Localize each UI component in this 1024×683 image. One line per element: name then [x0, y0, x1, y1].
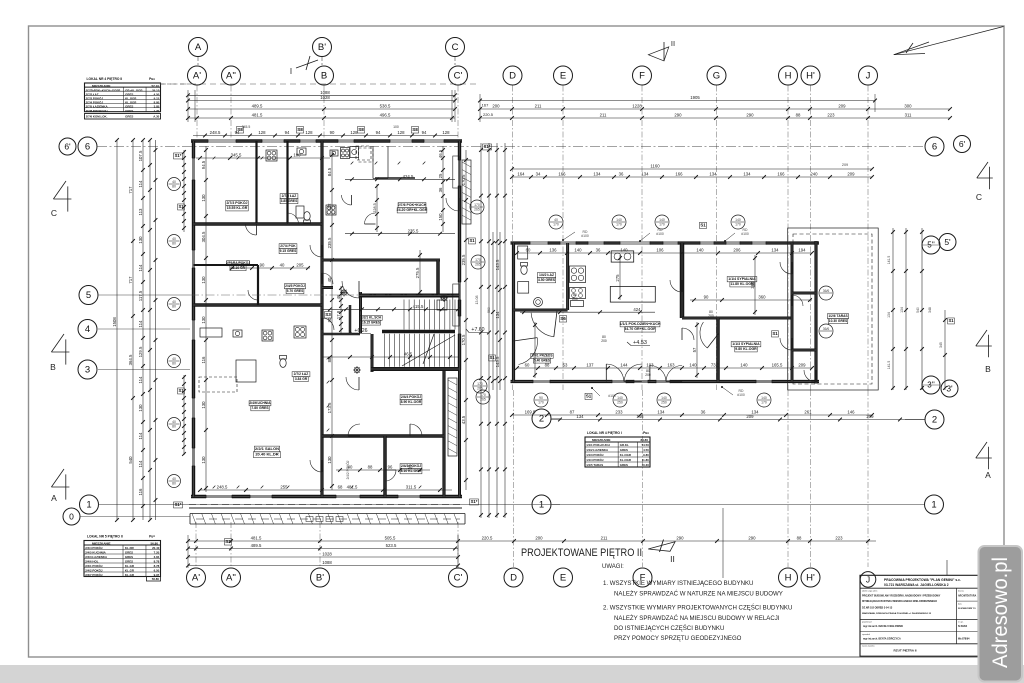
svg-text:34: 34	[536, 172, 541, 177]
svg-text:523.5: 523.5	[386, 543, 397, 548]
svg-text:311: 311	[905, 113, 912, 118]
svg-text:5: 5	[86, 290, 91, 301]
svg-text:H': H'	[806, 573, 815, 584]
svg-text:7.80 GRES: 7.80 GRES	[251, 406, 269, 410]
svg-text:248.5: 248.5	[217, 485, 228, 490]
svg-text:LOKAL NR 4 PIĘTRO I: LOKAL NR 4 PIĘTRO I	[587, 431, 622, 435]
svg-text:40: 40	[172, 357, 176, 361]
svg-text:1/1/3 SYPIALNIA: 1/1/3 SYPIALNIA	[732, 342, 760, 346]
svg-text:60: 60	[525, 363, 530, 368]
svg-text:branża: branża	[958, 590, 965, 593]
svg-text:90: 90	[330, 130, 335, 135]
svg-text:170: 170	[616, 223, 622, 227]
svg-text:114: 114	[138, 460, 143, 467]
svg-text:173.5: 173.5	[327, 402, 332, 413]
svg-text:S8: S8	[412, 127, 418, 132]
svg-text:4.50: 4.50	[643, 448, 649, 452]
svg-text:88: 88	[368, 465, 373, 470]
svg-text:40: 40	[172, 237, 176, 241]
svg-text:540: 540	[128, 456, 133, 464]
svg-text:1/4/2 ŁAZ: 1/4/2 ŁAZ	[539, 273, 554, 277]
svg-text:206: 206	[733, 248, 741, 253]
svg-text:130: 130	[201, 456, 206, 464]
svg-text:134: 134	[657, 410, 665, 415]
svg-text:5.70 GRES: 5.70 GRES	[287, 289, 304, 293]
svg-text:169.5: 169.5	[525, 410, 536, 415]
svg-text:D: D	[509, 71, 516, 82]
svg-text:170.5: 170.5	[461, 174, 466, 185]
svg-text:1/1/5 TARAS: 1/1/5 TARAS	[586, 463, 603, 467]
svg-text:130: 130	[201, 276, 206, 284]
svg-text:163: 163	[667, 363, 675, 368]
svg-text:170: 170	[474, 203, 480, 207]
svg-text:H: H	[785, 71, 792, 82]
svg-text:DO ISTNIEJĄCYCH CZĘŚCI BUDY: DO ISTNIEJĄCYCH CZĘŚCI BUDYNKU	[614, 624, 724, 632]
svg-text:255: 255	[280, 485, 288, 490]
svg-text:D: D	[510, 573, 517, 584]
svg-text:36: 36	[701, 410, 706, 415]
svg-text:1028: 1028	[320, 95, 330, 100]
svg-text:2/4/1 POKÓJ: 2/4/1 POKÓJ	[85, 563, 103, 568]
svg-text:106: 106	[656, 248, 664, 253]
svg-text:15.55 KL.GR: 15.55 KL.GR	[227, 206, 248, 210]
svg-text:90: 90	[704, 295, 709, 300]
svg-text:134: 134	[495, 311, 500, 319]
svg-text:100: 100	[293, 153, 301, 158]
svg-text:S1: S1	[469, 238, 475, 243]
svg-text:265: 265	[475, 263, 481, 267]
svg-text:36: 36	[619, 172, 624, 177]
svg-text:2/7/2 ŁAZ: 2/7/2 ŁAZ	[294, 372, 309, 376]
svg-text:A': A'	[193, 71, 201, 82]
svg-text:84.5: 84.5	[327, 167, 332, 176]
svg-text:165.5: 165.5	[772, 363, 783, 368]
svg-text:3.84 GR: 3.84 GR	[295, 377, 308, 381]
svg-text:S1: S1	[489, 355, 495, 360]
svg-text:40: 40	[172, 420, 176, 424]
svg-text:345.5: 345.5	[242, 125, 251, 129]
svg-text:209: 209	[798, 363, 806, 368]
svg-text:223: 223	[835, 536, 843, 541]
svg-text:128: 128	[258, 130, 266, 135]
svg-text:560: 560	[487, 307, 491, 313]
svg-text:03-721 WARSZAWA ul. JAGIELLOŃS: 03-721 WARSZAWA ul. JAGIELLOŃSKA 2	[884, 582, 949, 587]
svg-text:134: 134	[641, 172, 649, 177]
svg-text:220.5: 220.5	[482, 536, 493, 541]
svg-text:NALEŻY SPRAWDZAĆ W NATURZE: NALEŻY SPRAWDZAĆ W NATURZE NA MIEJSCU BU…	[614, 591, 783, 598]
svg-text:73.5: 73.5	[711, 363, 720, 368]
svg-text:250: 250	[661, 401, 667, 405]
svg-text:128: 128	[442, 130, 450, 135]
svg-text:36/6: 36/6	[823, 327, 830, 331]
svg-text:130: 130	[201, 316, 206, 324]
svg-text:290: 290	[748, 536, 756, 541]
svg-text:GRES: GRES	[125, 550, 133, 554]
svg-text:88: 88	[545, 363, 550, 368]
svg-text:6': 6'	[959, 139, 966, 149]
svg-text:290: 290	[746, 113, 754, 118]
svg-text:235.5: 235.5	[461, 254, 466, 265]
svg-text:170: 170	[553, 223, 559, 227]
svg-text:170: 170	[761, 401, 767, 405]
svg-text:PROJEKTOWANE PIĘTRO II: PROJEKTOWANE PIĘTRO II	[521, 547, 642, 559]
svg-text:17.8: 17.8	[336, 310, 341, 319]
svg-text:#100: #100	[608, 394, 616, 398]
svg-text:113: 113	[138, 208, 143, 215]
svg-text:2/4/4 POKÓJ: 2/4/4 POKÓJ	[401, 394, 421, 399]
svg-text:140: 140	[696, 248, 704, 253]
svg-text:130: 130	[201, 401, 206, 409]
svg-text:164: 164	[517, 172, 525, 177]
svg-text:LOKAL NR 5 PIĘTRO II: LOKAL NR 5 PIĘTRO II	[87, 535, 123, 539]
svg-text:B: B	[50, 362, 56, 372]
svg-text:2/4/5 KUCHNIA: 2/4/5 KUCHNIA	[85, 550, 106, 554]
svg-text:6.50: 6.50	[154, 568, 160, 572]
svg-text:290: 290	[674, 113, 682, 118]
svg-text:170: 170	[477, 382, 483, 386]
svg-text:40: 40	[172, 180, 176, 184]
svg-text:146: 146	[847, 410, 855, 415]
svg-text:40: 40	[554, 218, 558, 222]
svg-text:40: 40	[348, 465, 353, 470]
svg-text:53: 53	[563, 363, 568, 368]
svg-text:68: 68	[338, 485, 343, 490]
svg-text:114: 114	[138, 180, 143, 187]
svg-text:7.20: 7.20	[154, 550, 160, 554]
svg-text:H: H	[785, 573, 792, 584]
svg-text:240: 240	[810, 172, 818, 177]
svg-text:250: 250	[617, 401, 623, 405]
svg-text:2. WSZYSTKIE WYMIARY PROJEK: 2. WSZYSTKIE WYMIARY PROJEKTOWANYCH CZĘŚ…	[603, 604, 792, 612]
svg-text:114: 114	[138, 376, 143, 383]
svg-text:A': A'	[192, 573, 200, 584]
svg-text:Pu=: Pu=	[149, 77, 155, 81]
svg-text:94: 94	[376, 130, 381, 135]
svg-text:717: 717	[128, 186, 133, 194]
svg-text:obiekt i jego adres: obiekt i jego adres	[862, 590, 877, 593]
svg-text:166: 166	[777, 172, 785, 177]
svg-text:94: 94	[285, 130, 290, 135]
svg-text:13.08: 13.08	[475, 296, 479, 305]
svg-text:20.40 KL.DR: 20.40 KL.DR	[255, 452, 278, 457]
svg-text:209: 209	[838, 104, 846, 109]
svg-text:114: 114	[138, 432, 143, 439]
svg-text:80: 80	[240, 263, 245, 268]
svg-text:1088: 1088	[322, 560, 332, 565]
svg-text:200: 200	[535, 536, 543, 541]
svg-text:140: 140	[659, 218, 665, 222]
svg-text:S1: S1	[700, 223, 706, 228]
svg-text:GR.KL: GR.KL	[620, 443, 629, 447]
svg-text:209: 209	[847, 172, 855, 177]
svg-text:166: 166	[675, 172, 683, 177]
svg-text:209: 209	[842, 163, 848, 167]
svg-text:GRES: GRES	[125, 114, 133, 118]
svg-text:2/4/3 ŁAZIENKA: 2/4/3 ŁAZIENKA	[85, 555, 108, 559]
svg-text:2/7/6 POK+KUCH: 2/7/6 POK+KUCH	[398, 203, 427, 207]
svg-text:481.5: 481.5	[347, 485, 358, 490]
svg-text:46.5: 46.5	[438, 149, 443, 158]
svg-text:94.5: 94.5	[201, 160, 206, 169]
svg-text:129.5: 129.5	[138, 346, 143, 357]
svg-text:nazwa rysunku: nazwa rysunku	[862, 645, 875, 648]
svg-text:1028: 1028	[322, 552, 332, 557]
svg-text:10.30 GRES: 10.30 GRES	[829, 319, 848, 323]
svg-text:S1*: S1*	[175, 153, 182, 158]
svg-text:54.50: 54.50	[642, 443, 650, 447]
svg-text:S3: S3	[325, 312, 331, 317]
svg-text:1/1/4 SYPIALNIA: 1/1/4 SYPIALNIA	[728, 277, 756, 281]
svg-text:C: C	[452, 42, 459, 53]
svg-text:J: J	[866, 71, 871, 82]
svg-text:PRZY POMOCY SPRZĘTU GEODEZY: PRZY POMOCY SPRZĘTU GEODEZYJNEGO	[614, 635, 742, 642]
svg-text:2/7/3 POKÓJ: 2/7/3 POKÓJ	[226, 200, 247, 205]
svg-text:481.5: 481.5	[251, 536, 262, 541]
svg-text:A: A	[51, 493, 57, 503]
svg-text:116: 116	[138, 488, 143, 495]
svg-text:Wa 878/94: Wa 878/94	[958, 638, 970, 641]
svg-text:projektował: projektował	[862, 620, 872, 623]
svg-text:261: 261	[804, 410, 812, 415]
svg-text:B': B'	[318, 42, 326, 53]
svg-text:F: F	[639, 71, 645, 82]
svg-text:200: 200	[708, 314, 714, 318]
svg-text:1/1/1 POK+KUCH: 1/1/1 POK+KUCH	[586, 443, 610, 447]
svg-text:Pu=: Pu=	[643, 431, 649, 435]
svg-text:100: 100	[393, 125, 399, 129]
svg-text:717: 717	[128, 276, 133, 284]
svg-text:80: 80	[172, 482, 176, 486]
svg-text:275.5: 275.5	[415, 267, 420, 278]
svg-text:S1: S1	[772, 331, 778, 336]
svg-text:KL.DR: KL.DR	[125, 546, 135, 550]
svg-text:205: 205	[296, 263, 304, 268]
svg-text:S3: S3	[225, 539, 231, 544]
svg-text:RZUT PIĘTRA II: RZUT PIĘTRA II	[894, 649, 917, 653]
svg-text:KL.OGR: KL.OGR	[620, 458, 632, 462]
svg-text:KL.OGR: KL.OGR	[620, 453, 632, 457]
svg-text:87: 87	[570, 410, 575, 415]
svg-text:Pu=: Pu=	[149, 535, 155, 539]
svg-text:8.78: 8.78	[154, 564, 160, 568]
svg-text:80: 80	[172, 362, 176, 366]
svg-text:235.5: 235.5	[408, 228, 419, 233]
svg-text:9.80: 9.80	[643, 453, 649, 457]
svg-text:128: 128	[305, 130, 313, 135]
svg-text:St 66/94: St 66/94	[958, 625, 968, 628]
svg-text:1228: 1228	[632, 104, 642, 109]
svg-text:1160: 1160	[650, 164, 660, 169]
svg-text:5': 5'	[944, 237, 951, 247]
svg-text:141.5: 141.5	[887, 256, 891, 265]
svg-text:489.5: 489.5	[251, 543, 262, 548]
svg-text:80: 80	[172, 242, 176, 246]
svg-text:102: 102	[327, 203, 332, 211]
svg-text:#100: #100	[737, 393, 745, 397]
svg-text:60: 60	[526, 248, 531, 253]
svg-text:233: 233	[615, 410, 623, 415]
svg-text:235.5: 235.5	[327, 237, 332, 248]
svg-text:6: 6	[85, 142, 90, 153]
svg-text:130: 130	[201, 194, 206, 202]
svg-text:E: E	[560, 71, 566, 82]
svg-text:E: E	[560, 573, 566, 584]
svg-text:KL.GR: KL.GR	[125, 564, 135, 568]
svg-text:200: 200	[492, 104, 500, 109]
svg-text:481.5: 481.5	[252, 113, 263, 118]
svg-text:166: 166	[558, 172, 566, 177]
svg-text:170: 170	[480, 393, 486, 397]
svg-text:GRES: GRES	[125, 109, 133, 113]
svg-text:40: 40	[172, 477, 176, 481]
svg-text:S1*: S1*	[484, 144, 491, 149]
svg-text:sprawdził: sprawdził	[862, 633, 870, 636]
svg-text:223: 223	[827, 113, 835, 118]
svg-text:140: 140	[617, 396, 623, 400]
svg-text:56: 56	[408, 465, 413, 470]
svg-text:C': C'	[454, 71, 463, 82]
svg-text:88: 88	[797, 536, 802, 541]
svg-text:G: G	[713, 71, 720, 82]
svg-text:#100: #100	[656, 232, 664, 236]
svg-text:GRES: GRES	[125, 559, 133, 563]
svg-text:140: 140	[661, 396, 667, 400]
svg-text:2/4/2 POKÓJ: 2/4/2 POKÓJ	[85, 567, 103, 572]
svg-text:2/7/5 ŁAZ: 2/7/5 ŁAZ	[282, 194, 297, 198]
svg-text:290: 290	[676, 536, 684, 541]
svg-text:36/6: 36/6	[823, 289, 830, 293]
svg-text:1/1/1 POK.DZIEN+KUCH: 1/1/1 POK.DZIEN+KUCH	[619, 322, 660, 326]
svg-text:2/4/KUCHNIA: 2/4/KUCHNIA	[249, 401, 271, 405]
svg-text:1508: 1508	[112, 317, 117, 327]
svg-text:84.80: 84.80	[640, 438, 648, 442]
svg-text:140: 140	[689, 363, 697, 368]
svg-text:B': B'	[316, 573, 324, 584]
svg-text:304.5: 304.5	[201, 231, 206, 242]
svg-text:103: 103	[646, 363, 654, 368]
svg-text:2: 2	[932, 415, 937, 426]
svg-text:GRES: GRES	[620, 448, 628, 452]
svg-text:1/2/1 KL.SCH: 1/2/1 KL.SCH	[361, 316, 382, 320]
svg-text:C: C	[51, 208, 57, 218]
svg-text:ARCHITEKTURA: ARCHITEKTURA	[958, 594, 977, 597]
svg-text:GRES: GRES	[125, 555, 133, 559]
svg-text:170: 170	[735, 223, 741, 227]
svg-text:nr upr.: nr upr.	[958, 620, 964, 623]
svg-text:2/4/4 POKÓJ: 2/4/4 POKÓJ	[85, 545, 103, 550]
svg-text:11.80: 11.80	[642, 458, 649, 462]
svg-text:2/4/6 HOL: 2/4/6 HOL	[85, 559, 99, 563]
svg-text:2/7/8 P.POKOJU: 2/7/8 P.POKOJU	[86, 109, 108, 113]
svg-text:3.84: 3.84	[154, 555, 160, 559]
svg-text:KL.GR: KL.GR	[125, 573, 135, 577]
svg-text:140: 140	[616, 218, 622, 222]
svg-text:146: 146	[636, 414, 644, 419]
svg-text:S8: S8	[297, 127, 303, 132]
svg-text:137: 137	[586, 363, 594, 368]
svg-text:+7.60: +7.60	[471, 327, 484, 333]
svg-text:128: 128	[350, 130, 358, 135]
svg-text:S8: S8	[358, 127, 364, 132]
svg-text:424.5: 424.5	[403, 174, 414, 179]
svg-text:1. WSZYSTKIE WYMIARY ISTNIE: 1. WSZYSTKIE WYMIARY ISTNIEJĄCEGO BUDYNK…	[603, 580, 753, 587]
svg-text:S1*: S1*	[175, 502, 182, 507]
svg-text:#100: #100	[581, 234, 589, 238]
svg-text:24.20 GR+KL.OGR: 24.20 GR+KL.OGR	[397, 208, 428, 212]
svg-text:2/7/6 KOM.LOK.: 2/7/6 KOM.LOK.	[86, 114, 108, 118]
svg-text:6: 6	[932, 142, 937, 153]
svg-text:140: 140	[740, 363, 748, 368]
svg-text:211: 211	[600, 113, 607, 118]
svg-text:134: 134	[900, 307, 904, 313]
svg-text:1: 1	[931, 500, 936, 511]
svg-text:16.15 GRES: 16.15 GRES	[362, 320, 380, 324]
svg-text:134: 134	[771, 248, 779, 253]
svg-text:140: 140	[620, 248, 628, 253]
svg-text:130: 130	[327, 456, 332, 464]
svg-text:2/PARA/POKÓJ: 2/PARA/POKÓJ	[226, 260, 250, 265]
svg-text:194: 194	[798, 248, 806, 253]
svg-text:345.5: 345.5	[231, 153, 242, 158]
svg-text:2/7/4 POK: 2/7/4 POK	[280, 244, 296, 248]
svg-text:5.40 GRES: 5.40 GRES	[534, 358, 550, 362]
svg-text:A: A	[195, 42, 202, 53]
svg-text:1: 1	[539, 500, 544, 511]
svg-text:107.5: 107.5	[138, 150, 143, 161]
svg-text:144: 144	[620, 363, 628, 368]
svg-text:167: 167	[482, 102, 489, 107]
svg-text:94: 94	[422, 130, 427, 135]
svg-text:88: 88	[327, 357, 332, 362]
svg-text:496.5: 496.5	[380, 113, 391, 118]
svg-text:134: 134	[709, 172, 717, 177]
svg-text:311.5: 311.5	[406, 485, 417, 490]
svg-text:UWAGI:: UWAGI:	[602, 564, 624, 570]
svg-text:ISTNIEJĄCEGO BUDYNKU MIESZKALN: ISTNIEJĄCEGO BUDYNKU MIESZKALNEGO WIELOR…	[862, 600, 937, 603]
svg-text:9.80 KL.OGR: 9.80 KL.OGR	[735, 347, 757, 351]
svg-text:345: 345	[939, 342, 943, 348]
svg-text:25: 25	[438, 173, 443, 178]
svg-text:I: I	[290, 67, 292, 76]
svg-text:Adresowo.pl: Adresowo.pl	[988, 557, 1012, 668]
svg-text:MIESZKANIE: MIESZKANIE	[92, 541, 111, 545]
svg-text:II: II	[671, 39, 675, 48]
svg-text:A'': A''	[226, 573, 236, 584]
svg-text:80: 80	[172, 305, 176, 309]
svg-text:364.5: 364.5	[128, 354, 133, 365]
svg-text:141.5: 141.5	[887, 361, 891, 370]
svg-text:4: 4	[85, 324, 90, 335]
svg-text:134: 134	[887, 312, 891, 318]
svg-text:90: 90	[539, 396, 543, 400]
svg-text:57: 57	[692, 347, 697, 352]
svg-text:170.5: 170.5	[461, 334, 466, 345]
svg-text:150: 150	[438, 213, 443, 221]
svg-text:B: B	[321, 71, 327, 82]
svg-text:B: B	[985, 364, 991, 374]
svg-text:2/2/1 SALON: 2/2/1 SALON	[255, 446, 279, 451]
svg-text:II: II	[670, 554, 675, 564]
svg-text:275: 275	[615, 274, 620, 282]
svg-text:211: 211	[601, 536, 608, 541]
svg-text:36: 36	[596, 248, 601, 253]
svg-text:S1*: S1*	[471, 499, 478, 504]
svg-text:40: 40	[280, 263, 285, 268]
svg-text:DZ.NR 102 OBRĘB 3-04-13: DZ.NR 102 OBRĘB 3-04-13	[862, 607, 893, 610]
svg-text:117.5: 117.5	[138, 290, 143, 301]
svg-text:LOKAL NR 4 PIĘTRO II: LOKAL NR 4 PIĘTRO II	[87, 77, 123, 81]
svg-text:C': C'	[454, 573, 463, 584]
